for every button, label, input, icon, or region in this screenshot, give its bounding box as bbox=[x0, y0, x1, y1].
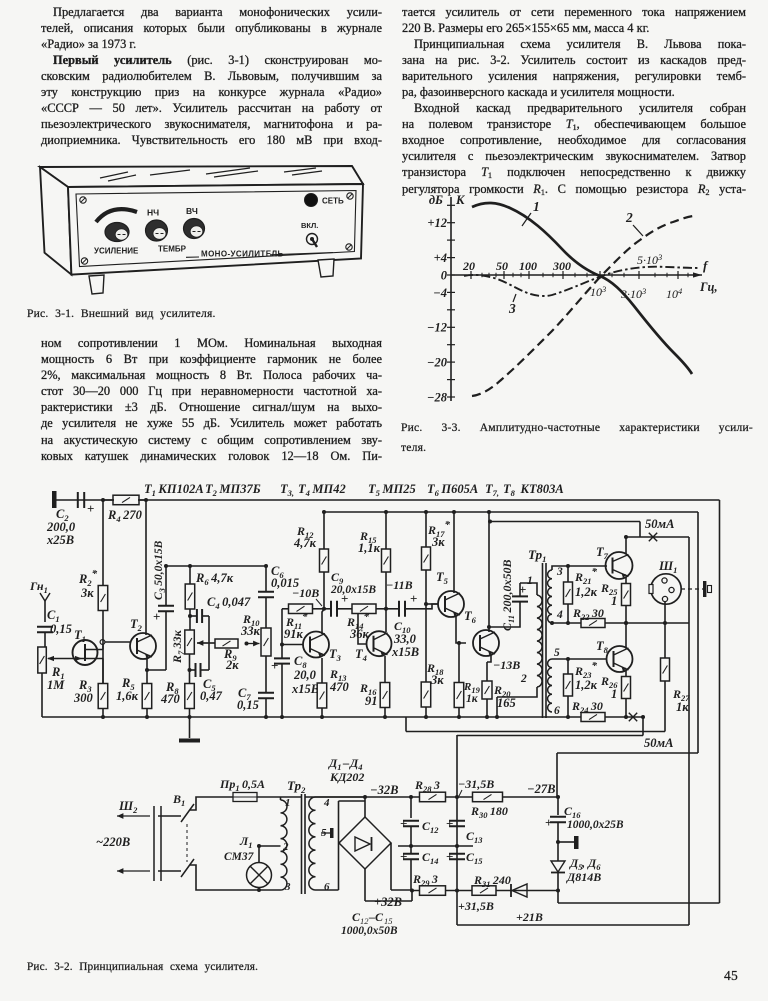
svg-text:R22 30: R22 30 bbox=[572, 606, 604, 622]
label R10 bbox=[240, 612, 261, 638]
chassis at C16 bbox=[558, 836, 579, 849]
svg-text:х15В: х15В bbox=[291, 682, 319, 696]
svg-text:+: + bbox=[446, 849, 453, 864]
label T4 bbox=[355, 647, 367, 663]
transformer Tr1 secondary I bbox=[548, 570, 552, 623]
svg-text:1М: 1М bbox=[47, 678, 65, 692]
label R2 bbox=[78, 568, 98, 600]
svg-text:Тр1: Тр1 bbox=[528, 547, 546, 564]
label C9 bbox=[330, 570, 376, 596]
potentiometer R1 bbox=[38, 647, 47, 673]
label prim 2 bbox=[282, 841, 289, 853]
label R8 bbox=[160, 680, 181, 706]
svg-text:+31,5В: +31,5В bbox=[458, 899, 494, 913]
svg-text:1к: 1к bbox=[676, 700, 689, 714]
gate junction bbox=[100, 640, 105, 645]
caption fig 3-2 bbox=[27, 960, 258, 975]
label R14 bbox=[346, 611, 370, 641]
svg-text:R23*: R23* bbox=[574, 660, 598, 680]
svg-text:3к: 3к bbox=[80, 586, 94, 600]
transistor T5 bbox=[438, 591, 464, 617]
label R29 bbox=[412, 872, 438, 888]
label V1 bbox=[172, 792, 185, 808]
wire supply node bbox=[164, 564, 266, 606]
svg-text:С4 0,047: С4 0,047 bbox=[207, 595, 251, 611]
label prim 3 bbox=[284, 881, 291, 893]
capacitor C6 bbox=[258, 564, 274, 628]
label R23 bbox=[574, 660, 598, 692]
resistor R27 bbox=[661, 623, 670, 732]
svg-text:1,6к: 1,6к bbox=[116, 689, 139, 703]
svg-text:С3 50,0х15В: С3 50,0х15В bbox=[153, 540, 167, 600]
bass knob bbox=[146, 220, 168, 241]
svg-text:1,2к: 1,2к bbox=[575, 585, 598, 599]
wire T8 collector bbox=[624, 621, 628, 648]
svg-text:С11 200,0х50В: С11 200,0х50В bbox=[500, 560, 516, 631]
wire plus to right riser bbox=[557, 891, 559, 904]
label R22 bbox=[572, 606, 604, 622]
resistor R23 bbox=[564, 657, 573, 719]
svg-text:Т1: Т1 bbox=[74, 628, 86, 644]
svg-text:20,0: 20,0 bbox=[293, 668, 317, 682]
wire Sh1 to output node bbox=[663, 602, 667, 626]
svg-text:С13: С13 bbox=[466, 829, 483, 845]
svg-text:+: + bbox=[400, 849, 407, 864]
label Sh2 bbox=[118, 799, 138, 815]
label L1 bbox=[224, 834, 255, 863]
wire R17 down bbox=[424, 570, 438, 682]
label terminal 3 bbox=[556, 566, 563, 578]
svg-text:Т5 МП25: Т5 МП25 bbox=[368, 482, 416, 498]
svg-text:−13В: −13В bbox=[493, 658, 520, 672]
wire T3 emitter bbox=[321, 658, 323, 683]
capacitor C7 bbox=[258, 656, 274, 719]
label C15 bbox=[466, 850, 483, 866]
svg-text:2к: 2к bbox=[225, 658, 239, 672]
svg-text:1к: 1к bbox=[466, 693, 479, 705]
svg-text:СМ37: СМ37 bbox=[224, 851, 255, 863]
resistor R19 bbox=[454, 643, 464, 719]
resistor R30 bbox=[473, 792, 503, 802]
label sec 5 bbox=[321, 827, 334, 839]
resistor R2 bbox=[98, 586, 108, 684]
resistor R26 bbox=[622, 677, 631, 720]
label prim 1 bbox=[285, 797, 291, 809]
switch V1 bbox=[158, 804, 194, 877]
panel lettering bbox=[94, 197, 344, 259]
label -32V bbox=[370, 783, 398, 797]
svg-text:1: 1 bbox=[285, 797, 291, 809]
wire bridge plus out bbox=[365, 843, 414, 901]
wire primary top bbox=[520, 583, 537, 595]
resistor R3 bbox=[98, 684, 108, 720]
capacitor C13 bbox=[446, 816, 465, 848]
wire T6 emitter bbox=[487, 655, 491, 662]
svg-text:Т3,: Т3, bbox=[280, 482, 294, 498]
svg-text:91: 91 bbox=[365, 694, 378, 708]
svg-text:Т4 МП42: Т4 МП42 bbox=[298, 482, 346, 498]
wire 50mA collector feed bbox=[457, 537, 689, 925]
label D1-D4 bbox=[328, 756, 364, 784]
transistor T8 bbox=[607, 646, 633, 672]
resistor R28 bbox=[420, 792, 446, 802]
svg-text:36к: 36к bbox=[349, 627, 370, 641]
transistor T7 bbox=[606, 552, 633, 579]
svg-text:Ш1: Ш1 bbox=[658, 559, 677, 575]
label T2 bbox=[130, 617, 143, 633]
svg-text:R29 3: R29 3 bbox=[412, 872, 438, 888]
resistor R8 bbox=[185, 684, 195, 720]
label R27 bbox=[672, 687, 690, 714]
label C16 bbox=[564, 804, 624, 831]
svg-text:Т6 П605А: Т6 П605А bbox=[427, 482, 478, 498]
node -31.5V bbox=[455, 777, 494, 799]
resistor R21 bbox=[564, 564, 573, 625]
label terminal 1 bbox=[527, 575, 533, 587]
transistor T3 bbox=[303, 632, 329, 658]
capacitor C15 bbox=[446, 849, 465, 864]
label C6 bbox=[271, 564, 299, 590]
wire driver collector feed bbox=[488, 520, 640, 538]
label R20 bbox=[493, 683, 516, 710]
svg-text:Т1 КП102А: Т1 КП102А bbox=[144, 482, 204, 498]
svg-text:,: , bbox=[581, 856, 585, 870]
capacitor C14 bbox=[400, 846, 419, 891]
svg-text:Ш2: Ш2 bbox=[118, 799, 138, 815]
svg-text:Гн1: Гн1 bbox=[29, 579, 48, 595]
label R18 bbox=[426, 661, 444, 687]
label T3 bbox=[329, 647, 342, 663]
svg-text:+: + bbox=[410, 591, 417, 606]
svg-text:Т8: Т8 bbox=[596, 639, 609, 655]
wire C10 to T5 base bbox=[406, 604, 438, 609]
svg-text:1: 1 bbox=[611, 687, 617, 701]
wire rail2-R12 bbox=[322, 510, 326, 549]
wire sec2 top to T8 base bbox=[552, 658, 607, 660]
label R12 bbox=[293, 524, 317, 550]
resistor R18 bbox=[421, 682, 431, 719]
resistor R14 bbox=[338, 604, 386, 614]
resistor R13 bbox=[317, 683, 327, 719]
label sec 4 bbox=[323, 797, 330, 809]
capacitor C9 bbox=[324, 591, 348, 617]
label Tr1 bbox=[528, 547, 546, 564]
wire rail2-R17 bbox=[424, 510, 428, 547]
node C2-R2 bbox=[101, 498, 105, 502]
svg-text:+21В: +21В bbox=[516, 910, 543, 924]
label T8 bbox=[596, 639, 609, 655]
label R4 bbox=[107, 508, 143, 524]
wire bottom ground rail bbox=[42, 716, 643, 718]
transformer Tr2 core bbox=[302, 794, 306, 894]
svg-text:4: 4 bbox=[323, 797, 330, 809]
svg-text:Т2 МП37Б: Т2 МП37Б bbox=[205, 482, 261, 498]
svg-text:6: 6 bbox=[554, 705, 560, 717]
svg-text:1,1к: 1,1к bbox=[358, 541, 381, 555]
transistor T4 bbox=[367, 631, 392, 656]
label Pr1 bbox=[219, 777, 265, 793]
svg-text:50мА: 50мА bbox=[645, 517, 674, 531]
lamp L1 bbox=[247, 844, 281, 892]
svg-text:С12: С12 bbox=[422, 819, 439, 835]
svg-text:33к: 33к bbox=[240, 624, 261, 638]
svg-text:3к: 3к bbox=[431, 535, 445, 549]
transformer Tr1 primary bbox=[537, 595, 542, 687]
label C13 bbox=[466, 829, 483, 845]
svg-text:Д814В: Д814В bbox=[566, 870, 601, 884]
diode D6 bbox=[511, 884, 527, 897]
capacitor C10 bbox=[386, 591, 417, 617]
plus rail L1 bbox=[412, 889, 560, 893]
svg-text:300: 300 bbox=[73, 691, 94, 705]
svg-text:33,0: 33,0 bbox=[393, 632, 417, 646]
svg-text:165: 165 bbox=[497, 696, 516, 710]
label R17 bbox=[427, 519, 451, 549]
label R21 bbox=[574, 566, 598, 599]
resistor R24 bbox=[581, 713, 605, 722]
svg-text:4: 4 bbox=[556, 609, 563, 621]
wire bridge top bbox=[364, 797, 366, 817]
left text column bbox=[41, 4, 382, 149]
label R5 bbox=[116, 676, 139, 703]
wire C4-C5 bypass bbox=[208, 616, 210, 670]
potentiometer R10 treble bbox=[261, 628, 271, 656]
wire -27V rail-2 bbox=[323, 512, 698, 797]
power toggle switch bbox=[307, 234, 318, 248]
middle left paragraph bbox=[41, 335, 382, 464]
svg-text:R30 180: R30 180 bbox=[470, 804, 508, 820]
ammeter break top bbox=[645, 517, 674, 541]
chart x-axis labels bbox=[462, 252, 718, 301]
wire C1-R1 bbox=[44, 632, 46, 647]
svg-text:200,0: 200,0 bbox=[46, 520, 76, 534]
zener D5 bbox=[551, 842, 565, 891]
svg-text:–: – bbox=[342, 756, 350, 770]
treble knob bbox=[184, 219, 205, 239]
svg-text:R24 30: R24 30 bbox=[571, 699, 603, 715]
wire -32V rail bbox=[281, 796, 558, 798]
svg-text:R28 3: R28 3 bbox=[414, 778, 440, 794]
svg-text:С16: С16 bbox=[564, 804, 581, 820]
label C4 bbox=[207, 595, 251, 611]
svg-text:+32В: +32В bbox=[374, 895, 402, 909]
label T5 bbox=[436, 570, 449, 586]
svg-text:1000,0х25В: 1000,0х25В bbox=[567, 819, 624, 831]
label T6 bbox=[464, 609, 477, 625]
label R9 bbox=[223, 647, 239, 672]
wire T5 emitter bbox=[456, 616, 466, 645]
label R6 bbox=[195, 571, 234, 587]
svg-text:2: 2 bbox=[520, 673, 527, 685]
wire bridge upper-left loop bbox=[339, 801, 366, 843]
transformer Tr2 primary bbox=[281, 800, 287, 890]
svg-text:В1: В1 bbox=[172, 792, 185, 808]
label C2 bbox=[46, 507, 76, 547]
transformer Tr2 secondary bbox=[309, 797, 316, 890]
label terminal 2 bbox=[520, 673, 527, 685]
resistor R12 bbox=[320, 549, 329, 572]
svg-text:91к: 91к bbox=[284, 627, 304, 641]
svg-text:R31 240: R31 240 bbox=[473, 873, 511, 889]
caption fig 3-1 bbox=[27, 306, 216, 321]
resistor R20 bbox=[482, 662, 492, 719]
wire emitter to C3 bbox=[147, 612, 166, 670]
svg-text:С14: С14 bbox=[422, 850, 439, 866]
resistor R17 bbox=[422, 547, 431, 570]
svg-text:R4 270: R4 270 bbox=[107, 508, 143, 524]
capacitor C16 bbox=[545, 795, 566, 844]
resistor R29 bbox=[420, 886, 446, 896]
wire T7 emitter bbox=[625, 577, 627, 583]
label C3 rotated bbox=[153, 540, 167, 600]
wire T7 collector bbox=[624, 535, 628, 554]
svg-text:Т7,: Т7, bbox=[485, 482, 499, 498]
chart y-axis labels bbox=[427, 193, 466, 405]
wire R11 left to base bbox=[280, 609, 303, 659]
label terminal 5 bbox=[554, 647, 560, 659]
svg-text:0,47: 0,47 bbox=[200, 689, 223, 703]
label C8 bbox=[291, 654, 319, 696]
svg-text:Тр2: Тр2 bbox=[287, 778, 306, 795]
wire T2 emitter bbox=[145, 658, 149, 683]
label R15 bbox=[358, 529, 381, 555]
potentiometer R7 bass bbox=[185, 630, 195, 683]
label R24 bbox=[571, 699, 603, 715]
svg-text:Т6: Т6 bbox=[464, 609, 477, 625]
svg-text:1,2к: 1,2к bbox=[575, 678, 598, 692]
svg-text:20,0х15В: 20,0х15В bbox=[330, 584, 376, 596]
svg-text:1000,0х50В: 1000,0х50В bbox=[341, 925, 398, 937]
label C14 bbox=[422, 850, 439, 866]
capacitor C8 bbox=[271, 658, 290, 673]
label R28 bbox=[414, 778, 440, 794]
svg-text:+: + bbox=[153, 609, 160, 624]
label R25 bbox=[600, 581, 618, 608]
wire T2 collector bbox=[145, 500, 147, 635]
page number bbox=[724, 968, 738, 983]
figure 3-1 amplifier cabinet bbox=[40, 166, 363, 187]
svg-text:2: 2 bbox=[282, 841, 289, 853]
capacitor C5 bbox=[188, 663, 210, 677]
svg-text:+: + bbox=[446, 816, 453, 831]
svg-text:4,7к: 4,7к bbox=[293, 536, 317, 550]
svg-text:Т2: Т2 bbox=[130, 617, 143, 633]
resistor R31 bbox=[472, 886, 496, 896]
fuse Pr1 bbox=[233, 793, 257, 802]
label R11 bbox=[284, 611, 308, 641]
transistor T1 FET bbox=[73, 640, 98, 665]
svg-text:3: 3 bbox=[556, 566, 563, 578]
svg-text:R7 33к: R7 33к bbox=[170, 629, 186, 664]
label R31 bbox=[473, 873, 511, 889]
label T1 bbox=[74, 628, 86, 644]
svg-text:5: 5 bbox=[554, 647, 560, 659]
wire T6 collector bbox=[487, 510, 491, 632]
svg-text:х25В: х25В bbox=[46, 533, 74, 547]
label T7 bbox=[596, 545, 609, 561]
svg-text:0,15: 0,15 bbox=[50, 622, 72, 636]
resistor R16 bbox=[380, 683, 390, 720]
label R1 bbox=[47, 665, 65, 692]
svg-text:R2*: R2* bbox=[78, 568, 98, 588]
transistor type list heading bbox=[144, 482, 564, 498]
label R30 bbox=[470, 804, 508, 820]
label R19 bbox=[463, 681, 481, 705]
label -10V bbox=[292, 586, 322, 606]
svg-text:+: + bbox=[545, 815, 552, 830]
svg-text:470: 470 bbox=[329, 680, 350, 694]
chassis terminal at C2 bbox=[52, 491, 57, 508]
label +21V bbox=[516, 910, 543, 924]
connector chassis stub bbox=[681, 581, 712, 597]
svg-text:3: 3 bbox=[284, 881, 291, 893]
input jack Gn1 bbox=[40, 593, 50, 622]
label Gn1 bbox=[29, 579, 48, 595]
wire C8 down bbox=[280, 664, 284, 719]
wire T4 emitter bbox=[384, 656, 386, 682]
ammeter break bottom bbox=[629, 713, 674, 750]
wire sec bottom to bridge bbox=[316, 843, 339, 890]
capacitor C12 bbox=[400, 795, 419, 848]
wire rail2-R15 bbox=[384, 510, 388, 549]
label C12 bbox=[422, 819, 439, 835]
svg-text:R6 4,7к: R6 4,7к bbox=[195, 571, 234, 587]
node R4-T2 bbox=[144, 498, 148, 502]
wire fuse to Tr2 bbox=[257, 797, 281, 800]
label +32V bbox=[374, 895, 402, 909]
svg-text:1: 1 bbox=[611, 594, 617, 608]
svg-text:КД202: КД202 bbox=[329, 770, 364, 784]
ground symbol bbox=[179, 717, 200, 743]
wire R2 branch bbox=[102, 500, 104, 586]
svg-text:−31,5В: −31,5В bbox=[458, 777, 494, 791]
resistor R4 bbox=[103, 495, 146, 505]
power lamp bbox=[305, 194, 318, 207]
label R3 bbox=[73, 678, 94, 705]
label C1 bbox=[47, 608, 72, 636]
label Sh1 bbox=[658, 559, 677, 575]
midpoint wire bbox=[398, 845, 473, 847]
label C5 bbox=[200, 677, 223, 703]
svg-text:−32В: −32В bbox=[370, 783, 398, 797]
chart axes fig 3-3 bbox=[450, 197, 452, 401]
svg-text:Пр1 0,5А: Пр1 0,5А bbox=[219, 777, 265, 793]
label -27V bbox=[527, 782, 555, 796]
transistor T6 bbox=[473, 630, 499, 656]
wire T1 source and gate bbox=[47, 656, 103, 683]
capacitor C11 bbox=[489, 582, 528, 627]
label terminal 6 bbox=[554, 705, 560, 717]
resistor R11 feedback bbox=[282, 604, 324, 614]
label terminal 4 bbox=[556, 609, 563, 621]
wire switch to fuse bbox=[190, 797, 233, 810]
wire sec1 bottom bbox=[550, 621, 554, 625]
svg-text:+: + bbox=[400, 816, 407, 831]
label sec 6 bbox=[324, 881, 330, 893]
svg-text:~220В: ~220В bbox=[96, 835, 130, 849]
transformer core bbox=[543, 563, 547, 718]
resistor R15 bbox=[382, 549, 391, 572]
label R7 rotated bbox=[170, 629, 186, 664]
svg-text:+: + bbox=[519, 582, 526, 597]
svg-text:Л1: Л1 bbox=[239, 834, 252, 850]
svg-text:R21*: R21* bbox=[574, 566, 598, 586]
wire R12-node bbox=[322, 572, 326, 611]
wire top negative rail bbox=[56, 500, 720, 903]
svg-text:Т3: Т3 bbox=[329, 647, 342, 663]
svg-text:Т4: Т4 bbox=[355, 647, 367, 663]
transformer Tr1 secondary II bbox=[548, 659, 552, 712]
